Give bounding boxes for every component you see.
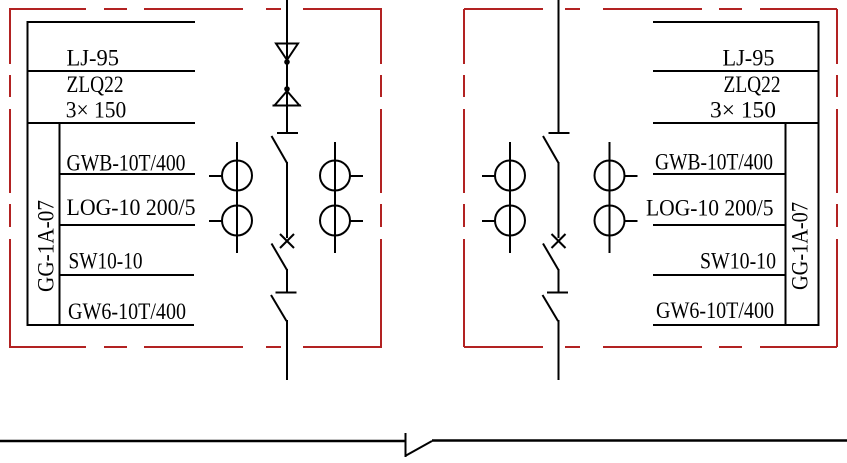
wire: CT primary conductor [509, 142, 511, 253]
busbar break mark: vertical tick [405, 433, 407, 457]
svg-text:ZLQ22: ZLQ22 [724, 72, 781, 98]
wire: left panel outgoing drop [286, 320, 288, 380]
svg-text:LJ-95: LJ-95 [67, 46, 120, 72]
svg-text:GW6-10T/400: GW6-10T/400 [68, 299, 186, 325]
current transformer LOG-10 (lower winding circle) [320, 206, 350, 236]
current transformer LOG-10 (lower winding circle) [222, 206, 252, 236]
circuit breaker SW10-10 (left panel): X mark [280, 234, 294, 248]
svg-text:LOG-10 200/5: LOG-10 200/5 [67, 195, 196, 221]
disconnect switch GW6-10T/400 (left panel, bottom): contact bar [276, 292, 297, 294]
wire between breaker and bottom switch (right panel) [558, 269, 560, 292]
CT secondary lead (lower) [482, 220, 495, 222]
disconnect switch GWB-10T/400 (right panel, top): contact bar [549, 132, 570, 134]
busbar (left segment) [0, 440, 405, 443]
disconnect switch GW6-10T/400 (right panel, bottom): blade [543, 295, 559, 321]
wire: right panel outgoing drop [558, 320, 560, 380]
disconnect switch GWB-10T/400 (left panel, top): contact bar [277, 132, 298, 134]
equipment table frame (left panel) [27, 21, 195, 326]
svg-text:GWB-10T/400: GWB-10T/400 [67, 151, 186, 177]
CT secondary lead (upper) [482, 175, 495, 177]
CT secondary lead (lower) [350, 220, 363, 222]
svg-text:LOG-10 200/5: LOG-10 200/5 [646, 196, 774, 222]
svg-text:3× 150: 3× 150 [710, 98, 776, 124]
wire: left panel incoming feeder drop [286, 0, 288, 133]
current transformer LOG-10 (lower winding circle) [495, 206, 525, 236]
current transformer LOG-10 (upper winding circle) [222, 161, 252, 191]
cubicle enclosure (left panel, dashed red boundary) [9, 9, 382, 347]
wire: right panel incoming feeder drop [558, 0, 560, 133]
CT secondary lead (upper) [209, 175, 222, 177]
svg-text:ZLQ22: ZLQ22 [67, 72, 124, 98]
disconnect switch GW6-10T/400 (left panel, bottom): blade [271, 295, 287, 321]
node dot above up triangle [284, 86, 290, 92]
wire: CT primary conductor [609, 142, 611, 253]
CT secondary lead (upper) [625, 175, 638, 177]
arrester gap electrode (up triangle) [275, 91, 300, 106]
node dot below down triangle [284, 59, 290, 65]
current transformer LOG-10 (upper winding circle) [320, 161, 350, 191]
cubicle enclosure (right panel, dashed red boundary) [464, 9, 837, 347]
disconnect switch GWB-10T/400 (right panel, top): blade [543, 136, 559, 163]
svg-text:SW10-10: SW10-10 [700, 249, 776, 275]
arrester base bar [273, 105, 302, 107]
svg-text:GG-1A-07: GG-1A-07 [788, 202, 814, 290]
current transformer LOG-10 (lower winding circle) [595, 206, 625, 236]
wire between top switch and breaker (right panel) [558, 162, 560, 238]
svg-text:LJ-95: LJ-95 [723, 46, 775, 72]
svg-text:SW10-10: SW10-10 [69, 249, 143, 275]
CT secondary lead (upper) [350, 175, 363, 177]
busbar break mark: diagonal [406, 441, 432, 456]
circuit breaker SW10-10 (right panel): X mark [552, 234, 566, 248]
wire: CT primary conductor [334, 142, 336, 253]
circuit breaker SW10-10 (right panel): blade [543, 244, 559, 271]
wire between breaker and bottom switch (left panel) [286, 269, 288, 292]
arrester gap electrode (down triangle) [276, 44, 298, 61]
svg-text:GG-1A-07: GG-1A-07 [34, 200, 60, 292]
current transformer LOG-10 (upper winding circle) [495, 161, 525, 191]
CT secondary lead (lower) [625, 220, 638, 222]
wire between top switch and breaker (left panel) [286, 162, 288, 238]
disconnect switch GWB-10T/400 (left panel, top): blade [272, 136, 288, 163]
busbar (right segment) [432, 439, 847, 442]
equipment table frame (right panel) [653, 21, 819, 326]
svg-text:GWB-10T/400: GWB-10T/400 [655, 150, 773, 176]
disconnect switch GW6-10T/400 (right panel, bottom): contact bar [547, 292, 568, 294]
circuit breaker SW10-10 (left panel): blade [272, 244, 288, 271]
CT secondary lead (lower) [209, 220, 222, 222]
svg-text:GW6-10T/400: GW6-10T/400 [656, 298, 774, 324]
current transformer LOG-10 (upper winding circle) [595, 161, 625, 191]
wire: CT primary conductor [236, 142, 238, 253]
svg-text:3× 150: 3× 150 [66, 98, 127, 124]
